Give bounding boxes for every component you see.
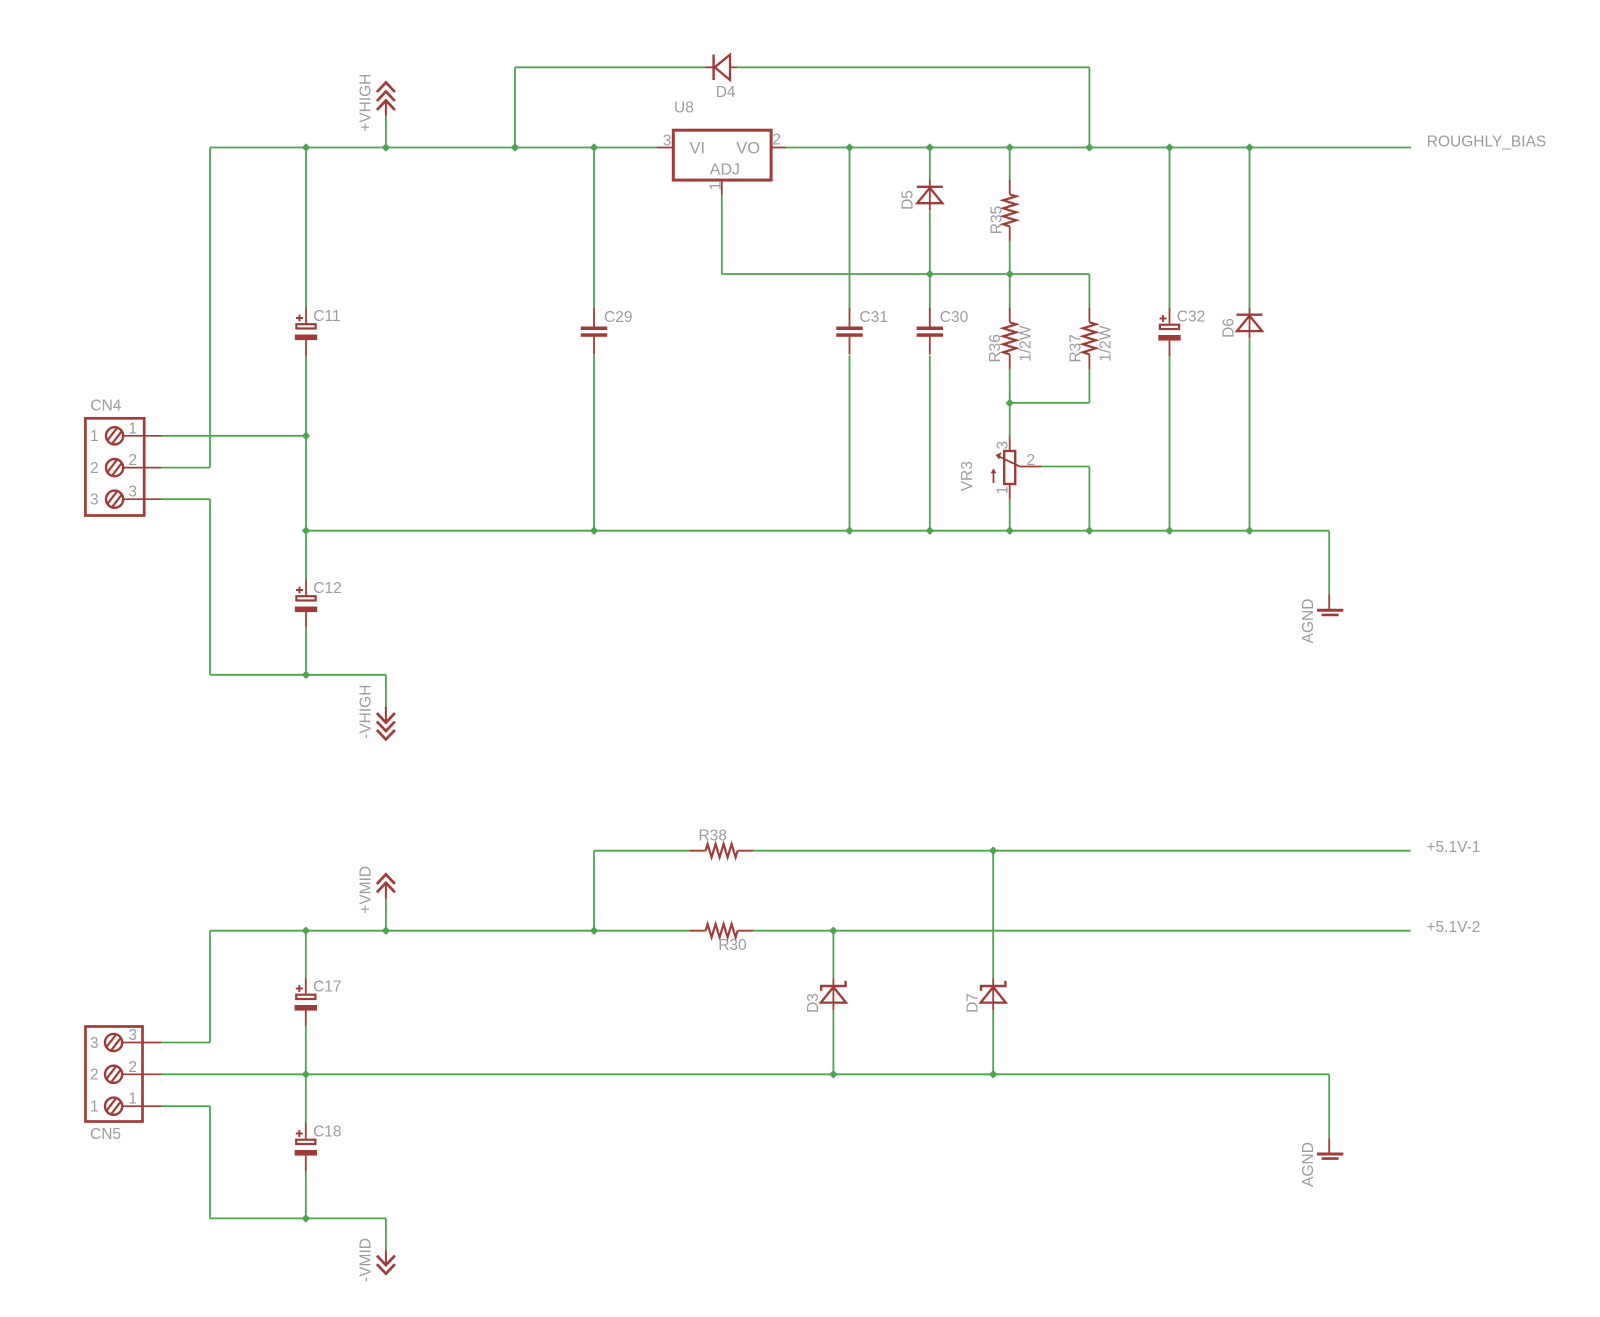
svg-text:C30: C30 bbox=[940, 309, 969, 326]
svg-text:C12: C12 bbox=[313, 580, 341, 597]
junction bbox=[383, 144, 389, 150]
junction bbox=[303, 1215, 309, 1221]
power symbol -VMID bbox=[377, 1250, 395, 1273]
svg-text:+5.1V-1: +5.1V-1 bbox=[1427, 839, 1481, 856]
wire CN5 pin2 rail bbox=[162, 1073, 1329, 1075]
capacitor C12 bbox=[295, 580, 342, 628]
svg-text:1: 1 bbox=[128, 1091, 137, 1108]
wire U8 ADJ down bbox=[721, 195, 723, 275]
wire +VMID stub bbox=[385, 899, 387, 931]
junction bbox=[591, 928, 597, 934]
wire +5.1V-1 bbox=[754, 850, 1411, 852]
junction bbox=[512, 144, 518, 150]
connector CN5 bbox=[86, 1027, 162, 1122]
resistor R36 bbox=[1003, 307, 1016, 369]
svg-text:R36: R36 bbox=[987, 334, 1004, 362]
svg-text:3: 3 bbox=[128, 1027, 137, 1044]
junction bbox=[383, 928, 389, 934]
svg-text:VO: VO bbox=[736, 140, 760, 158]
svg-text:CN5: CN5 bbox=[90, 1126, 121, 1143]
capacitor C29 bbox=[581, 308, 633, 355]
wire ADJ rail bbox=[722, 273, 1090, 275]
capacitor C18 bbox=[295, 1123, 342, 1171]
svg-text:VI: VI bbox=[690, 140, 706, 158]
svg-text:2: 2 bbox=[90, 460, 99, 477]
wire left vertical bbox=[209, 148, 211, 468]
junction bbox=[1166, 144, 1172, 150]
capacitor C17 bbox=[295, 978, 342, 1026]
diode D4 bbox=[705, 55, 737, 80]
wire -VMID stub bbox=[385, 1218, 387, 1250]
wire top rail left bbox=[210, 147, 657, 149]
wire C31 column bbox=[849, 148, 851, 308]
svg-text:U8: U8 bbox=[674, 100, 694, 117]
svg-text:D3: D3 bbox=[805, 993, 822, 1013]
wire VR3 pin3 bbox=[1009, 403, 1011, 437]
junction bbox=[1246, 144, 1252, 150]
wire D4 right bbox=[737, 66, 1089, 68]
svg-text:+5.1V-2: +5.1V-2 bbox=[1427, 919, 1481, 936]
junction bbox=[591, 528, 597, 534]
wire AGND drop bottom bbox=[1328, 1074, 1330, 1138]
svg-text:2: 2 bbox=[128, 1059, 137, 1076]
wire CN4 pin3 bbox=[162, 498, 210, 500]
junction bbox=[1166, 528, 1172, 534]
resistor R30 bbox=[690, 924, 754, 937]
svg-text:1: 1 bbox=[128, 420, 137, 437]
svg-text:3: 3 bbox=[663, 132, 672, 149]
wire CN5 pin1 bbox=[162, 1105, 210, 1107]
capacitor C31 bbox=[836, 308, 888, 355]
capacitor C11 bbox=[295, 308, 341, 356]
junction bbox=[990, 1071, 996, 1077]
junction bbox=[927, 271, 933, 277]
wire D4 branch right bbox=[1088, 67, 1090, 147]
power symbol +VMID bbox=[377, 874, 395, 898]
resistor R38 bbox=[690, 844, 754, 857]
svg-text:1: 1 bbox=[90, 1099, 99, 1116]
wire C30 column bbox=[929, 274, 931, 308]
svg-text:R35: R35 bbox=[989, 206, 1006, 234]
svg-text:D6: D6 bbox=[1221, 318, 1238, 338]
svg-text:D5: D5 bbox=[900, 190, 917, 210]
junction bbox=[927, 144, 933, 150]
svg-text:R38: R38 bbox=[699, 827, 727, 844]
U8 pin 1 stub bbox=[721, 180, 723, 194]
wire D4 left bbox=[515, 66, 705, 68]
wire to -VHIGH bbox=[210, 674, 386, 676]
wire C29 column bbox=[593, 148, 595, 308]
wire C18 bottom rail bbox=[210, 1217, 386, 1219]
svg-text:C31: C31 bbox=[860, 309, 888, 326]
svg-text:2: 2 bbox=[128, 452, 137, 469]
connector CN4 bbox=[85, 418, 161, 515]
wire R37 column bbox=[1088, 274, 1090, 307]
wire C11 column bbox=[305, 148, 307, 308]
svg-text:+VMID: +VMID bbox=[358, 866, 375, 914]
svg-text:1: 1 bbox=[90, 428, 99, 445]
wire CN4 pin2 bbox=[162, 467, 210, 469]
svg-text:3: 3 bbox=[90, 1035, 99, 1052]
capacitor C32 bbox=[1158, 308, 1205, 356]
svg-text:2: 2 bbox=[90, 1067, 99, 1084]
junction bbox=[1246, 528, 1252, 534]
junction bbox=[1007, 400, 1013, 406]
wire R35 column bbox=[1009, 148, 1011, 180]
wire D7 column bbox=[992, 851, 994, 979]
wire -VHIGH stub bbox=[385, 675, 387, 707]
junction bbox=[1007, 271, 1013, 277]
junction bbox=[303, 1071, 309, 1077]
junction bbox=[846, 528, 852, 534]
wire D5 column bbox=[929, 148, 931, 180]
wire R36 column bbox=[1009, 274, 1011, 307]
svg-text:2: 2 bbox=[772, 132, 781, 149]
svg-text:AGND: AGND bbox=[1300, 1142, 1317, 1187]
wire bottom rail bbox=[306, 530, 1329, 532]
svg-text:ADJ: ADJ bbox=[710, 162, 740, 179]
svg-text:3: 3 bbox=[995, 441, 1012, 450]
U8 pin 2 stub bbox=[771, 147, 785, 149]
wire D3 column bbox=[832, 931, 834, 979]
svg-text:1/2W: 1/2W bbox=[1018, 325, 1035, 362]
junction bbox=[1086, 144, 1092, 150]
diode D6 bbox=[1237, 307, 1263, 338]
junction bbox=[990, 848, 996, 854]
svg-text:3: 3 bbox=[128, 484, 137, 501]
wire R36-R37 bottom bbox=[1010, 402, 1090, 404]
junction bbox=[927, 528, 933, 534]
svg-text:D7: D7 bbox=[965, 993, 982, 1013]
svg-text:C11: C11 bbox=[313, 308, 340, 325]
svg-text:C29: C29 bbox=[604, 309, 632, 326]
junction bbox=[1007, 144, 1013, 150]
junction bbox=[1086, 528, 1092, 534]
svg-text:CN4: CN4 bbox=[90, 397, 121, 414]
svg-text:R37: R37 bbox=[1068, 334, 1085, 362]
wire CN5 pin3 bbox=[162, 1042, 210, 1044]
wire CN5 pin3 riser bbox=[209, 931, 211, 1043]
svg-text:1: 1 bbox=[708, 182, 725, 191]
wire VR3 pin2 bbox=[1042, 466, 1090, 468]
junction bbox=[591, 144, 597, 150]
resistor R35 bbox=[1003, 179, 1016, 241]
junction bbox=[303, 528, 309, 534]
svg-text:AGND: AGND bbox=[1300, 599, 1317, 644]
wire VR3 pin2 drop bbox=[1088, 467, 1090, 531]
junction bbox=[1007, 528, 1013, 534]
svg-text:C18: C18 bbox=[313, 1124, 341, 1141]
svg-text:R30: R30 bbox=[718, 937, 747, 954]
junction bbox=[846, 144, 852, 150]
svg-text:+VHIGH: +VHIGH bbox=[358, 74, 375, 132]
IC U8 bbox=[657, 130, 786, 194]
wire R38 left bbox=[594, 850, 690, 852]
junction bbox=[303, 433, 309, 439]
wire +VHIGH stub bbox=[385, 115, 387, 147]
wire C17 column bbox=[305, 931, 307, 978]
svg-text:-VMID: -VMID bbox=[358, 1238, 375, 1282]
wire C18 column bbox=[305, 1074, 307, 1123]
zener diode D3 bbox=[821, 979, 846, 1011]
zener diode D7 bbox=[981, 979, 1006, 1011]
power symbol -VHIGH bbox=[377, 707, 395, 740]
wire AGND drop bbox=[1328, 531, 1330, 595]
junction bbox=[830, 928, 836, 934]
wire +VMID rail bbox=[210, 930, 690, 932]
wire R38 branch bbox=[593, 851, 595, 931]
wire CN4 pin1 bbox=[162, 435, 306, 437]
junction bbox=[303, 144, 309, 150]
svg-text:C17: C17 bbox=[313, 979, 341, 996]
svg-text:-VHIGH: -VHIGH bbox=[358, 685, 375, 739]
junction bbox=[303, 928, 309, 934]
power symbol +VHIGH bbox=[377, 83, 395, 116]
svg-text:ROUGHLY_BIAS: ROUGHLY_BIAS bbox=[1427, 133, 1546, 150]
wire +5.1V-2 bbox=[754, 930, 1411, 932]
junction bbox=[830, 1071, 836, 1077]
svg-text:1: 1 bbox=[995, 486, 1012, 495]
resistor R37 bbox=[1083, 307, 1096, 369]
svg-text:C32: C32 bbox=[1177, 309, 1205, 326]
ground AGND bbox=[1317, 1138, 1343, 1158]
svg-text:1/2W: 1/2W bbox=[1097, 325, 1114, 362]
ground AGND bbox=[1317, 595, 1343, 615]
svg-text:VR3: VR3 bbox=[959, 461, 976, 491]
junction bbox=[303, 672, 309, 678]
wire CN5 pin1 drop bbox=[209, 1106, 211, 1218]
wire C32 column bbox=[1169, 148, 1171, 309]
wire D6 column bbox=[1249, 148, 1251, 308]
capacitor C30 bbox=[917, 308, 969, 355]
svg-text:D4: D4 bbox=[716, 84, 736, 101]
wire top rail right bbox=[786, 147, 1412, 149]
U8 pin 3 stub bbox=[657, 147, 673, 149]
diode D5 bbox=[917, 179, 943, 210]
svg-text:2: 2 bbox=[1027, 452, 1036, 469]
wire VR3 pin1 bbox=[1009, 499, 1011, 531]
wire left lower vertical bbox=[209, 499, 211, 675]
svg-text:3: 3 bbox=[90, 492, 99, 509]
potentiometer VR3 bbox=[991, 437, 1042, 500]
wire D4 branch left bbox=[514, 67, 516, 147]
